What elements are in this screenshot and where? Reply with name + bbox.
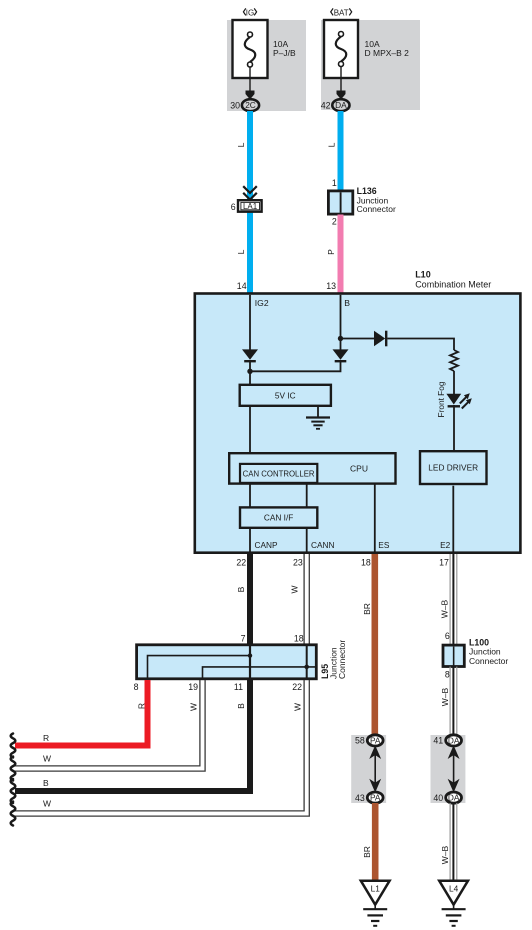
wire B through L95 <box>249 645 251 680</box>
wire W-B from DA to ground <box>450 803 457 880</box>
svg-text:Junction: Junction <box>469 647 501 657</box>
wire P (pink) from L136 to meter pin 13 <box>338 215 344 293</box>
wire W through L95 <box>306 644 308 680</box>
wire W from L95 pin 22 <box>15 680 309 816</box>
svg-text:P: P <box>326 249 336 255</box>
ECU box L10 combination meter <box>195 294 521 553</box>
pin 19 of L95 <box>188 682 198 692</box>
svg-text:W: W <box>293 703 303 711</box>
svg-text:L10: L10 <box>415 270 431 280</box>
wire R from L95 pin 8 <box>15 680 148 746</box>
label B horizontal <box>43 778 49 788</box>
connector LA1 chevron <box>243 186 257 199</box>
junction connector L95 box <box>137 645 317 679</box>
connector pin 40 DA <box>433 792 461 803</box>
svg-text:W: W <box>43 754 51 764</box>
svg-text:43: 43 <box>355 793 365 803</box>
svg-text:CAN I/F: CAN I/F <box>264 513 294 523</box>
connector LA1 box <box>231 200 262 212</box>
wire break squiggle R <box>11 734 16 758</box>
svg-text:22: 22 <box>236 557 246 567</box>
svg-text:ES: ES <box>378 540 390 550</box>
combination meter L10 label <box>415 270 491 290</box>
wire break squiggle W2 <box>11 802 16 826</box>
svg-text:30: 30 <box>230 101 240 111</box>
wire 5V IC to CAN controller <box>249 406 251 463</box>
pin CANN name <box>311 540 335 550</box>
label W vertical 2 <box>293 703 303 711</box>
label W vertical <box>189 703 199 711</box>
wire break squiggle B <box>11 779 16 803</box>
node (BAT) label <box>331 8 352 17</box>
internal bus wire to pin 19 <box>203 667 317 680</box>
pin 14 label <box>237 281 247 291</box>
diode D2 (B) <box>333 349 349 361</box>
wire L (cyan) from LA1 to meter pin 14 <box>247 212 253 293</box>
label W-B on wire <box>440 599 450 618</box>
pin 1 of L136 <box>332 178 337 188</box>
wire fuse IG to connector 2C <box>246 67 255 100</box>
svg-text:CANP: CANP <box>255 540 279 550</box>
svg-text:LA1: LA1 <box>243 202 258 211</box>
label L136 Junction Connector <box>357 186 396 214</box>
wire BR (ES) meter to PA <box>371 554 378 736</box>
LED front fog <box>446 393 471 408</box>
label L95 Junction Connector <box>320 640 347 679</box>
svg-text:W–B: W–B <box>440 687 450 706</box>
pin 6 of L100 <box>445 631 450 641</box>
connector pin 42 DA <box>321 99 350 111</box>
svg-text:W: W <box>189 703 199 711</box>
svg-text:8: 8 <box>134 682 139 692</box>
pin 2 of L136 <box>332 217 337 227</box>
wire fuse BAT to connector DA <box>337 67 346 100</box>
svg-text:P–J/B: P–J/B <box>273 48 296 58</box>
label R vertical <box>137 703 147 709</box>
pin 8 of L100 <box>445 669 450 679</box>
svg-text:D MPX–B 2: D MPX–B 2 <box>365 48 410 58</box>
CAN controller box <box>240 464 317 483</box>
svg-text:R: R <box>43 733 49 743</box>
svg-text:41: 41 <box>433 736 443 746</box>
wire CAN I/F to CANN pin <box>306 527 308 552</box>
svg-text:7: 7 <box>241 633 246 643</box>
wire CAN I/F to CANP pin <box>249 527 251 552</box>
svg-text:CPU: CPU <box>350 463 368 473</box>
svg-text:19: 19 <box>188 682 198 692</box>
connector pin 43 PA <box>355 792 383 803</box>
pin 13 label <box>326 281 336 291</box>
node junction on W at L95 <box>304 665 309 670</box>
fuse 10A P-J/B <box>233 20 297 78</box>
diode D1 (IG2) <box>242 349 258 361</box>
pin E2 name <box>440 540 451 550</box>
label B on wire <box>236 586 246 592</box>
label W on wire <box>290 585 300 593</box>
pin 23 label <box>293 557 303 567</box>
svg-text:18: 18 <box>361 557 371 567</box>
svg-text:Connector: Connector <box>357 204 396 214</box>
pin 8 of L95 <box>134 682 139 692</box>
label L on wire <box>236 142 246 147</box>
svg-text:Combination Meter: Combination Meter <box>415 280 491 290</box>
pin 22 of L95 <box>292 682 302 692</box>
resistor R1 <box>450 350 458 371</box>
wire W from L95 pin 19 <box>15 680 205 771</box>
svg-text:6: 6 <box>445 631 450 641</box>
pin B name <box>344 298 350 308</box>
label BR lower <box>362 846 372 858</box>
pin 18 of L95 <box>294 633 304 643</box>
label W-B on wire <box>440 687 450 706</box>
svg-text:1: 1 <box>332 178 337 188</box>
label P on wire <box>326 249 336 255</box>
svg-text:E2: E2 <box>440 540 451 550</box>
svg-text:W: W <box>290 585 300 593</box>
label Front Fog <box>436 381 446 417</box>
junction connector L100 box <box>443 645 464 666</box>
wire W-B (E2) meter to L100 <box>450 554 457 645</box>
svg-text:42: 42 <box>321 101 331 111</box>
label L on wire <box>327 142 337 147</box>
svg-text:IG2: IG2 <box>255 298 269 308</box>
svg-text:B: B <box>236 703 246 709</box>
label W horizontal 2 <box>43 799 51 809</box>
svg-text:DA: DA <box>335 100 347 110</box>
wire LED driver to E2 pin <box>452 486 454 552</box>
svg-text:PA: PA <box>370 735 381 745</box>
svg-text:PA: PA <box>370 793 381 803</box>
pin 22 label <box>236 557 246 567</box>
svg-text:5V IC: 5V IC <box>275 390 296 400</box>
junction connector L136 <box>328 191 352 214</box>
svg-text:BR: BR <box>362 603 372 615</box>
connector block DA shading <box>431 735 466 803</box>
svg-text:Connector: Connector <box>337 640 347 679</box>
svg-text:R: R <box>137 703 147 709</box>
connector pin 41 DA <box>433 735 461 746</box>
connector block PA shading <box>351 735 386 803</box>
pin IG2 name <box>255 298 269 308</box>
wire CAN controller to CAN I/F (right) <box>306 484 308 508</box>
wire W (CANN) meter to L95 <box>304 554 309 645</box>
svg-text:58: 58 <box>355 736 365 746</box>
in-harness arrow PA <box>371 747 380 791</box>
svg-text:Connector: Connector <box>469 656 508 666</box>
label W horizontal <box>43 754 51 764</box>
svg-text:DA: DA <box>448 735 460 745</box>
fuse 10A D MPX-B 2 <box>324 20 409 78</box>
wire diode D3 to resistor <box>387 339 454 351</box>
svg-text:18: 18 <box>294 633 304 643</box>
svg-text:CAN CONTROLLER: CAN CONTROLLER <box>243 469 315 478</box>
connector pin 30 2C <box>230 99 259 111</box>
wire break squiggle W1 <box>11 757 16 781</box>
svg-text:CANN: CANN <box>311 540 335 550</box>
wire diode D2 to junction <box>250 361 341 371</box>
svg-text:22: 22 <box>292 682 302 692</box>
fuse block shading (BAT) <box>321 20 420 110</box>
wire LED to LED driver <box>453 405 455 451</box>
wire B from L95 pin 11 <box>15 680 250 791</box>
regulator 5V IC <box>240 385 331 406</box>
wire B junction to diode D3 <box>341 338 375 340</box>
svg-text:40: 40 <box>433 793 443 803</box>
in-harness arrow DA <box>449 747 458 791</box>
label L on wire below LA1 <box>236 249 246 254</box>
wire BR from PA to ground <box>372 803 379 880</box>
svg-text:BAT: BAT <box>334 8 349 17</box>
internal bus wire to pin 8 <box>148 656 251 680</box>
svg-text:8: 8 <box>445 669 450 679</box>
ground L4 <box>439 881 468 926</box>
svg-text:W–B: W–B <box>440 599 450 618</box>
svg-text:Front Fog: Front Fog <box>436 381 446 417</box>
label W-B lower <box>440 845 450 864</box>
wire L (cyan) from DA to L136 <box>338 111 344 190</box>
LED driver box <box>420 451 487 484</box>
wire CAN controller to CAN I/F (left) <box>249 484 251 508</box>
svg-text:2: 2 <box>332 217 337 227</box>
svg-text:BR: BR <box>362 846 372 858</box>
fuse block shading (IG) <box>227 20 306 111</box>
label L100 Junction Connector <box>469 637 508 666</box>
diode D3 (to LED branch) <box>374 331 386 347</box>
svg-text:DA: DA <box>448 793 460 803</box>
node junction on B at L95 <box>248 653 252 657</box>
pin CANP name <box>255 540 279 550</box>
wire 5V IC to ground <box>317 406 319 418</box>
svg-text:W: W <box>43 799 51 809</box>
node junction on B line <box>338 336 343 341</box>
label B vertical <box>236 703 246 709</box>
pin 7 of L95 <box>241 633 246 643</box>
svg-text:L: L <box>236 142 246 147</box>
svg-text:L1: L1 <box>371 884 381 894</box>
svg-text:B: B <box>344 298 350 308</box>
ground L1 <box>361 881 390 926</box>
svg-text:11: 11 <box>234 682 243 692</box>
wire L (cyan) from 2C to LA1 <box>247 111 253 202</box>
pin 11 of L95 <box>234 682 243 692</box>
pin 18 label <box>361 557 371 567</box>
svg-text:13: 13 <box>326 281 336 291</box>
wire B internal <box>340 295 342 350</box>
connector pin 58 PA <box>355 735 383 746</box>
svg-text:6: 6 <box>231 202 236 212</box>
label R horizontal <box>43 733 49 743</box>
svg-text:LED DRIVER: LED DRIVER <box>428 463 478 473</box>
pin 17 label <box>439 557 449 567</box>
svg-text:17: 17 <box>439 557 449 567</box>
svg-text:23: 23 <box>293 557 303 567</box>
CPU box <box>229 453 395 483</box>
wire diode D1 to 5V IC <box>249 361 251 385</box>
svg-text:W–B: W–B <box>440 845 450 864</box>
wire W-B from L100 to DA <box>450 667 457 736</box>
ground (internal, 5V IC) <box>306 418 330 429</box>
svg-text:L4: L4 <box>449 884 459 894</box>
svg-text:IG: IG <box>246 8 254 17</box>
node (IG) label <box>243 8 256 17</box>
wire IG2 internal <box>249 295 251 350</box>
label BR on wire <box>362 603 372 615</box>
svg-text:B: B <box>43 778 49 788</box>
pin ES name <box>378 540 390 550</box>
svg-text:L: L <box>236 249 246 254</box>
wire B (CANP) meter to L95 <box>247 554 253 646</box>
node junction below D1 <box>247 369 252 374</box>
svg-text:B: B <box>236 586 246 592</box>
svg-text:14: 14 <box>237 281 247 291</box>
wire resistor to LED <box>453 371 455 394</box>
CAN I/F box <box>240 507 317 527</box>
wire CPU to ES pin <box>374 484 376 552</box>
svg-text:2C: 2C <box>245 100 256 110</box>
svg-text:L: L <box>327 142 337 147</box>
